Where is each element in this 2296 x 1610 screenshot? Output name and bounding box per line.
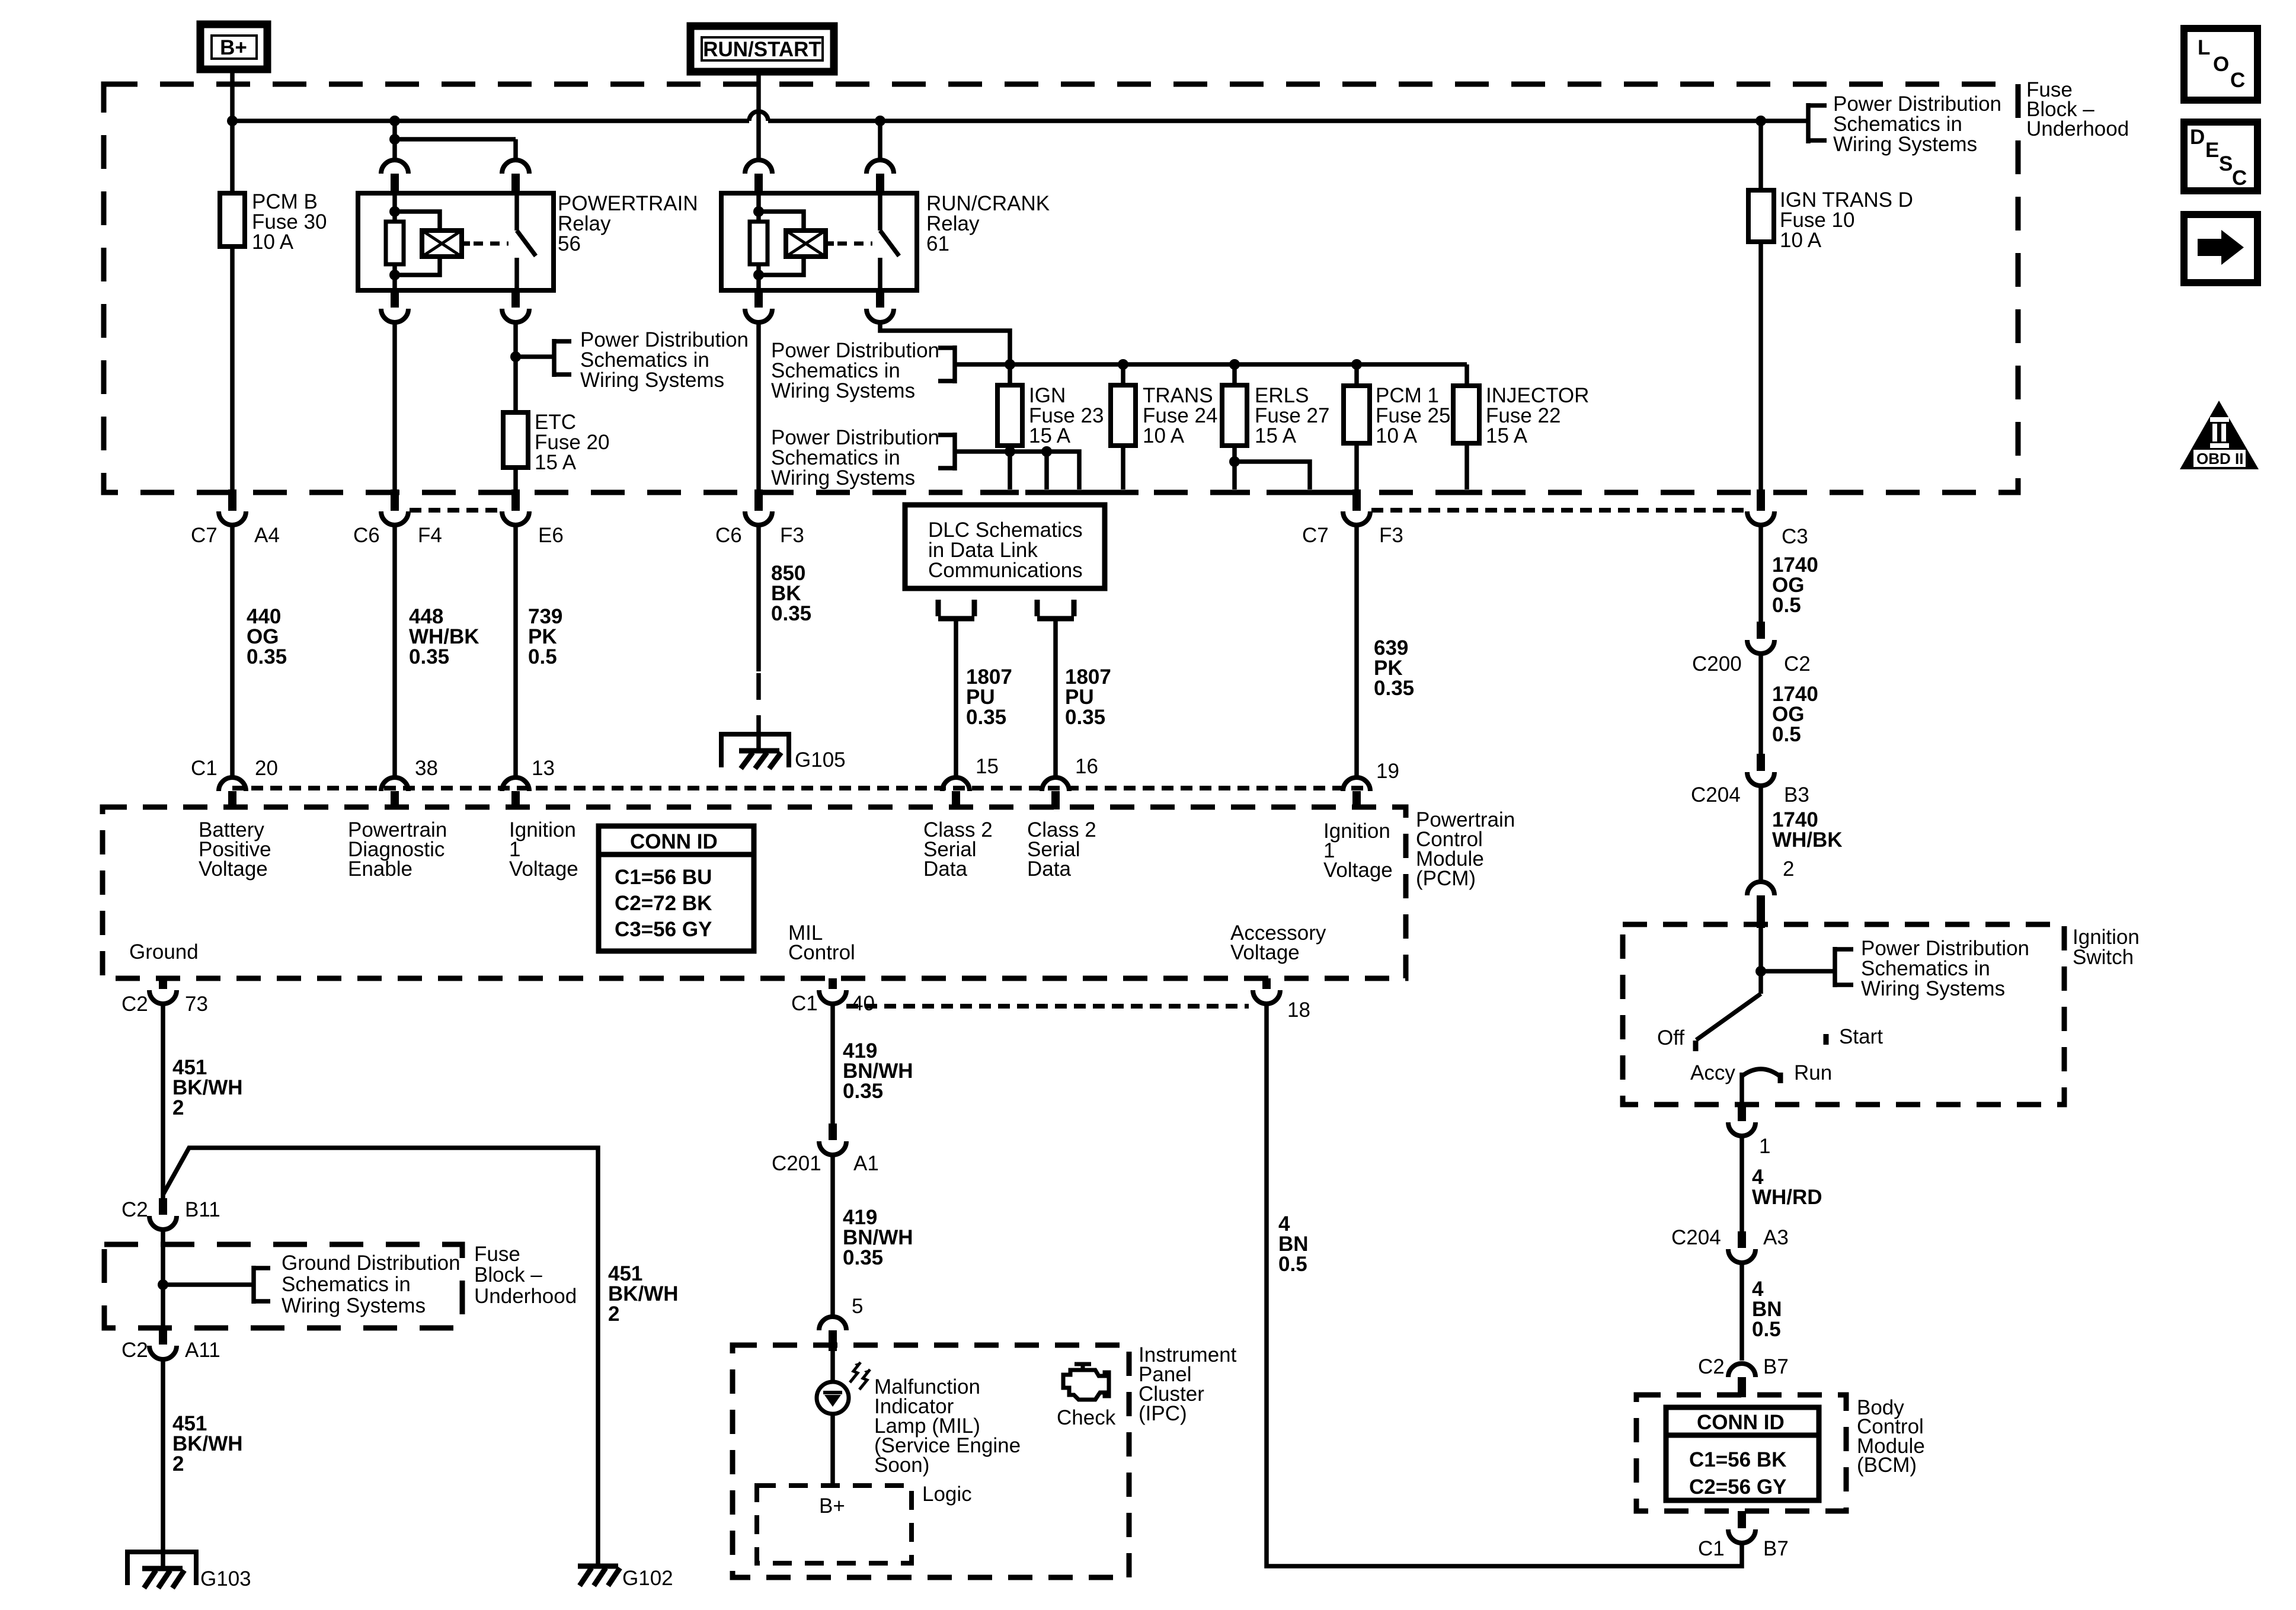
svg-text:0.5: 0.5 xyxy=(1278,1253,1307,1276)
wire into MIL lamp xyxy=(830,1351,835,1382)
wire trans fuse output xyxy=(1121,446,1125,489)
svg-text:B11: B11 xyxy=(185,1198,220,1221)
svg-text:10 A: 10 A xyxy=(1780,229,1822,252)
svg-text:C2=56 GY: C2=56 GY xyxy=(1689,1475,1786,1499)
fuse block underhood dashed box xyxy=(104,84,2018,492)
svg-text:(BCM): (BCM) xyxy=(1857,1454,1917,1477)
label wire 4 BN 0.5 (pin 18) xyxy=(1278,1212,1309,1276)
node run/crank switch branch xyxy=(875,116,885,126)
svg-text:(IPC): (IPC) xyxy=(1139,1402,1187,1425)
svg-text:CONN ID: CONN ID xyxy=(1697,1411,1785,1434)
svg-text:C1: C1 xyxy=(191,757,218,780)
PCM module dashed box xyxy=(103,807,1406,978)
svg-text:1: 1 xyxy=(1759,1135,1770,1158)
svg-text:0.5: 0.5 xyxy=(528,645,557,668)
label wire 1807 PU 0.35 (right) xyxy=(1065,665,1111,729)
wire A11 to G103 xyxy=(161,1359,165,1569)
label wire 451 BK/WH 2 (right branch) xyxy=(608,1262,679,1326)
node ignition feed tap xyxy=(1755,966,1766,977)
wire DLC to pin 15 xyxy=(954,619,958,777)
wire C3 to C200 xyxy=(1758,525,1763,622)
svg-text:20: 20 xyxy=(255,757,278,780)
svg-text:Communications: Communications xyxy=(928,559,1083,582)
label wire 448 WH/BK 0.35 xyxy=(409,605,479,668)
svg-text:C3=56 GY: C3=56 GY xyxy=(615,918,712,941)
svg-text:19: 19 xyxy=(1376,760,1399,783)
svg-text:B3: B3 xyxy=(1784,783,1809,806)
wire run/crank switch feed down xyxy=(878,121,882,160)
wire dotted connector face C6 xyxy=(410,508,501,513)
wire powertrain switch output xyxy=(513,322,518,412)
svg-text:C2: C2 xyxy=(121,993,148,1016)
svg-text:Wiring Systems: Wiring Systems xyxy=(1861,977,2005,1000)
svg-text:C7: C7 xyxy=(191,524,218,547)
svg-text:5: 5 xyxy=(852,1295,863,1318)
svg-text:Check: Check xyxy=(1057,1406,1116,1429)
svg-text:B7: B7 xyxy=(1763,1355,1789,1378)
pointer bracket Power Distribution (ign fuse bottom) xyxy=(771,426,1010,489)
node dlc branch xyxy=(1041,446,1052,457)
svg-text:38: 38 xyxy=(415,757,438,780)
connector into run/crank relay switch xyxy=(866,160,894,193)
svg-text:Off: Off xyxy=(1657,1026,1684,1049)
wire erls fuse output xyxy=(1235,446,1310,489)
connector C2 B11 xyxy=(121,1198,220,1230)
svg-text:Ground Distribution: Ground Distribution xyxy=(282,1251,461,1275)
node pcm1 fuse xyxy=(1351,359,1362,370)
svg-text:Data: Data xyxy=(1027,857,1071,881)
svg-text:0.35: 0.35 xyxy=(966,706,1006,729)
svg-text:Fuse: Fuse xyxy=(474,1243,520,1266)
svg-text:C2: C2 xyxy=(121,1339,148,1362)
connector C2 B7 into BCM xyxy=(1698,1355,1789,1397)
connector into run/crank relay coil xyxy=(745,160,772,193)
svg-text:C: C xyxy=(2230,69,2245,92)
svg-text:0.35: 0.35 xyxy=(409,645,449,668)
svg-text:C2=72 BK: C2=72 BK xyxy=(615,892,712,915)
wire B+ down from box xyxy=(230,69,235,193)
node mini bus xyxy=(389,134,400,145)
connector into powertrain relay coil xyxy=(381,160,408,193)
wire lamp to logic box xyxy=(830,1414,835,1486)
svg-text:A4: A4 xyxy=(254,524,280,547)
svg-text:E: E xyxy=(2205,139,2219,162)
pin 5 connector into IPC xyxy=(819,1295,863,1351)
svg-text:73: 73 xyxy=(185,993,208,1016)
svg-text:Switch: Switch xyxy=(2073,946,2134,969)
svg-text:A1: A1 xyxy=(853,1152,879,1175)
svg-text:0.35: 0.35 xyxy=(843,1246,883,1269)
svg-text:C1=56 BU: C1=56 BU xyxy=(615,866,712,889)
wire powertrain coil output to border xyxy=(392,322,397,491)
wire run/crank coil output to border xyxy=(756,322,761,491)
wire ground to B11 xyxy=(161,1004,165,1198)
wire bus corner to injector fuse xyxy=(1464,364,1469,386)
svg-text:C1: C1 xyxy=(1698,1537,1725,1560)
svg-text:Voltage: Voltage xyxy=(199,857,268,881)
wire pin 18 accessory voltage down xyxy=(1267,1004,1742,1566)
svg-text:S: S xyxy=(2219,152,2233,175)
svg-text:Data: Data xyxy=(923,857,967,881)
connector C1 B7 below BCM xyxy=(1698,1511,1789,1560)
wire ignition fuse bus xyxy=(1010,362,1467,367)
wire hop over RUN/START wire xyxy=(749,111,768,121)
relay RUN/CRANK 61 xyxy=(721,192,1050,290)
fuse PCM 1 Fuse 25 xyxy=(1344,364,1450,447)
label wire 451 BK/WH 2 (lower left) xyxy=(172,1412,243,1475)
connector below powertrain relay coil xyxy=(381,290,408,322)
svg-text:C204: C204 xyxy=(1691,783,1741,806)
svg-text:15 A: 15 A xyxy=(1255,424,1297,447)
wire MIL to C201 xyxy=(830,1004,835,1124)
connector C200 C2 xyxy=(1692,622,1811,676)
svg-text:C: C xyxy=(2232,167,2247,190)
label Fuse Block - Underhood (top right) xyxy=(2026,78,2129,140)
label wire 440 OG 0.35 xyxy=(247,605,287,668)
wire run/start down xyxy=(756,72,761,160)
svg-text:Wiring Systems: Wiring Systems xyxy=(282,1294,426,1317)
svg-text:Wiring Systems: Wiring Systems xyxy=(580,369,724,392)
svg-text:Voltage: Voltage xyxy=(1323,859,1393,882)
svg-text:Soon): Soon) xyxy=(874,1454,929,1477)
svg-text:Enable: Enable xyxy=(348,857,412,881)
svg-text:(PCM): (PCM) xyxy=(1416,867,1476,890)
wire pin1 to C204 A3 xyxy=(1739,1136,1744,1231)
label Ignition 1 Voltage (pin 19) xyxy=(1323,820,1393,882)
svg-text:Underhood: Underhood xyxy=(474,1285,577,1308)
node ign output xyxy=(1005,446,1015,457)
table CONN ID (BCM) xyxy=(1666,1407,1819,1500)
svg-text:B+: B+ xyxy=(819,1494,845,1518)
fuse ETC Fuse 20 xyxy=(503,411,609,474)
svg-text:Wiring Systems: Wiring Systems xyxy=(771,466,915,489)
svg-text:10 A: 10 A xyxy=(252,231,294,254)
pointer bracket Ground Distribution xyxy=(254,1251,461,1317)
switch blade run position xyxy=(1696,994,1761,1040)
svg-text:F3: F3 xyxy=(780,524,804,547)
pin 15 connector xyxy=(942,755,999,809)
svg-text:Run: Run xyxy=(1794,1061,1832,1084)
pin 13 connector xyxy=(502,757,555,809)
logic dashed box xyxy=(757,1486,912,1563)
node trans fuse xyxy=(1118,359,1128,370)
fuse IGN Fuse 23 xyxy=(997,364,1104,447)
lamp MIL indicator xyxy=(817,1362,870,1414)
fuse PCM B Fuse 30 xyxy=(220,190,327,254)
nav box arrow xyxy=(2184,215,2257,283)
svg-text:15 A: 15 A xyxy=(1486,424,1528,447)
label wire 1740 OG 0.5 (lower) xyxy=(1772,683,1818,746)
svg-text:C1: C1 xyxy=(791,992,818,1015)
wire top bus from hop to right side xyxy=(768,119,1806,123)
svg-text:10 A: 10 A xyxy=(1143,424,1185,447)
node ground distribution tap xyxy=(158,1279,168,1290)
pin 18 connector xyxy=(1253,978,1310,1022)
svg-text:Ground: Ground xyxy=(129,940,199,964)
svg-text:O: O xyxy=(2213,53,2229,76)
node powertrain relay coil branch xyxy=(389,116,400,126)
svg-text:C2: C2 xyxy=(1698,1355,1725,1378)
svg-text:B7: B7 xyxy=(1763,1537,1789,1560)
wire F4 to pin 38 xyxy=(392,525,397,777)
label Class 2 Serial Data (pin 15) xyxy=(923,818,993,881)
svg-text:A11: A11 xyxy=(185,1339,220,1362)
DLC Schematics box xyxy=(905,505,1105,588)
svg-text:2: 2 xyxy=(172,1096,184,1119)
BCM module dashed box xyxy=(1636,1395,1846,1511)
B+ power rail box xyxy=(200,24,267,69)
connector into powertrain relay switch xyxy=(502,160,529,193)
svg-text:CONN ID: CONN ID xyxy=(630,830,718,853)
svg-text:Logic: Logic xyxy=(922,1483,972,1506)
label Ignition Switch xyxy=(2073,926,2140,969)
svg-text:C200: C200 xyxy=(1692,652,1742,676)
label wire 850 BK 0.35 xyxy=(771,562,811,625)
fuse ERLS Fuse 27 xyxy=(1222,364,1329,447)
svg-text:Control: Control xyxy=(788,941,855,964)
svg-text:2: 2 xyxy=(1783,857,1794,881)
wire dotted connector face C7 to C3 xyxy=(1371,508,1746,513)
wire DLC to pin 16 xyxy=(1053,619,1058,777)
wire tap to bracket xyxy=(516,354,554,359)
pin bracket DLC right xyxy=(1037,600,1074,619)
svg-text:Wiring Systems: Wiring Systems xyxy=(771,379,915,402)
contact Start xyxy=(1824,1034,1829,1045)
svg-text:B+: B+ xyxy=(220,36,247,59)
svg-text:61: 61 xyxy=(926,232,949,255)
label Fuse Block - Underhood (lower) xyxy=(474,1243,577,1308)
svg-text:Start: Start xyxy=(1839,1025,1883,1048)
svg-text:C2: C2 xyxy=(121,1198,148,1221)
IPC module dashed box xyxy=(733,1345,1129,1577)
icon OBD II triangle xyxy=(2180,401,2259,469)
wire into ignition switch xyxy=(1758,928,1763,994)
PCM connector face dotted line xyxy=(232,786,1371,790)
fuse block underhood dashed box (lower) xyxy=(104,1244,462,1328)
svg-text:D: D xyxy=(2190,126,2205,149)
label wire 4 WH/RD xyxy=(1752,1166,1822,1209)
connector C204 B3 xyxy=(1691,754,1809,806)
ground G103 xyxy=(127,1552,251,1590)
pointer bracket Power Distribution (top right) xyxy=(1808,92,2001,156)
fuse IGN TRANS D Fuse 10 xyxy=(1748,121,1913,252)
pin bracket DLC left xyxy=(938,600,974,619)
wire tap to bracket xyxy=(163,1282,254,1287)
label Body Control Module (BCM) xyxy=(1857,1396,1925,1477)
svg-text:0.35: 0.35 xyxy=(247,645,287,668)
svg-text:15 A: 15 A xyxy=(1029,424,1071,447)
svg-text:0.5: 0.5 xyxy=(1752,1318,1781,1341)
node ign fuse xyxy=(1005,359,1015,370)
ground G105 xyxy=(721,734,846,772)
label wire 419 BN/WH 0.35 (upper) xyxy=(843,1039,913,1103)
table CONN ID (PCM) xyxy=(599,826,754,951)
label wire 4 BN 0.5 (right) xyxy=(1752,1278,1782,1341)
icon check engine xyxy=(1057,1364,1116,1429)
wire C200 to C204 xyxy=(1758,654,1763,754)
svg-text:WH/RD: WH/RD xyxy=(1752,1186,1822,1209)
contact Accy to Run arc xyxy=(1742,1069,1780,1076)
wire C204 A3 to C2 B7 xyxy=(1739,1263,1744,1361)
connector C7 F3 at fuse block exit (PCM 1 fuse) xyxy=(1302,489,1403,547)
svg-text:0.35: 0.35 xyxy=(1374,677,1414,700)
svg-text:56: 56 xyxy=(558,232,581,255)
ignition switch dashed box xyxy=(1623,924,2064,1105)
wire mini bus coil to switch xyxy=(395,139,516,160)
RUN/START power rail box xyxy=(690,26,834,72)
svg-text:Wiring Systems: Wiring Systems xyxy=(1833,133,1977,156)
wire run/crank switch output to fuse bus xyxy=(880,322,1010,364)
fuse TRANS Fuse 24 xyxy=(1111,364,1217,447)
connector pin 2 ignition switch xyxy=(1747,857,1794,928)
label Powertrain Control Module (PCM) xyxy=(1416,808,1515,890)
wire C201 to IPC xyxy=(830,1155,835,1317)
svg-text:0.5: 0.5 xyxy=(1772,594,1801,617)
wire branch diagonal to G102 run xyxy=(163,1148,598,1566)
wire ETC fuse to border xyxy=(513,468,518,491)
wire PCM B fuse to border xyxy=(230,247,235,491)
wire ign trans d output xyxy=(1758,242,1763,491)
node ign trans d branch xyxy=(1755,116,1766,126)
wire dotted connector face C1 bottom xyxy=(846,1004,1249,1009)
connector below run/crank relay coil xyxy=(745,290,772,322)
pointer bracket Power Distribution (ignition switch) xyxy=(1835,937,2029,1000)
label Accessory Voltage xyxy=(1230,921,1326,964)
nav box DESC xyxy=(2184,122,2257,191)
pin C2 73 ground connector xyxy=(121,978,208,1016)
connector below powertrain relay switch xyxy=(502,290,529,322)
label Battery Positive Voltage xyxy=(199,818,271,881)
wire pcm1 to pin 19 xyxy=(1354,525,1359,777)
svg-text:18: 18 xyxy=(1287,998,1310,1022)
svg-text:40: 40 xyxy=(852,992,875,1015)
svg-text:Accy: Accy xyxy=(1690,1061,1735,1084)
label wire 739 PK 0.5 xyxy=(528,605,562,668)
label Class 2 Serial Data (pin 16) xyxy=(1027,818,1096,881)
svg-text:OBD II: OBD II xyxy=(2196,450,2243,468)
svg-text:0.35: 0.35 xyxy=(771,602,811,625)
connector C6 F3 at fuse block exit xyxy=(715,489,804,547)
svg-text:C1=56 BK: C1=56 BK xyxy=(1689,1448,1786,1471)
label MIL Control xyxy=(788,921,855,964)
pin 19 connector xyxy=(1343,760,1399,809)
svg-text:2: 2 xyxy=(608,1302,619,1326)
svg-text:G102: G102 xyxy=(622,1567,673,1590)
wire tap to bracket xyxy=(1761,969,1835,974)
svg-text:0.35: 0.35 xyxy=(843,1080,883,1103)
ground G102 xyxy=(578,1566,673,1590)
node ETC branch label tap xyxy=(510,351,521,362)
label Instrument Panel Cluster (IPC) xyxy=(1139,1343,1237,1425)
svg-text:16: 16 xyxy=(1075,755,1098,778)
svg-text:L: L xyxy=(2198,36,2210,59)
contact Off xyxy=(1693,1041,1699,1051)
relay POWERTRAIN 56 xyxy=(358,192,698,290)
svg-text:C7: C7 xyxy=(1302,524,1329,547)
svg-text:Voltage: Voltage xyxy=(1230,941,1300,964)
svg-text:C3: C3 xyxy=(1782,525,1808,548)
svg-text:C6: C6 xyxy=(353,524,380,547)
pointer bracket Power Distribution (ETC) xyxy=(554,328,749,392)
svg-text:A3: A3 xyxy=(1763,1226,1789,1249)
node B+ bus junction xyxy=(227,116,238,126)
label wire 1740 WH/BK xyxy=(1772,808,1843,852)
svg-text:Voltage: Voltage xyxy=(509,857,578,881)
svg-text:0.5: 0.5 xyxy=(1772,723,1801,746)
svg-text:WH/BK: WH/BK xyxy=(1772,828,1843,852)
wire accy output xyxy=(1739,1073,1744,1105)
wire B11 into fuse block 2 xyxy=(161,1230,165,1285)
connector C2 A11 xyxy=(121,1328,220,1362)
svg-text:C2: C2 xyxy=(1784,652,1811,676)
svg-text:C201: C201 xyxy=(772,1152,821,1175)
svg-text:G103: G103 xyxy=(200,1567,251,1590)
label wire 1740 OG 0.5 (upper) xyxy=(1772,553,1818,617)
svg-text:2: 2 xyxy=(172,1452,184,1475)
fuse INJECTOR Fuse 22 xyxy=(1453,384,1589,447)
svg-text:15: 15 xyxy=(976,755,999,778)
label wire 419 BN/WH 0.35 (lower) xyxy=(843,1206,913,1269)
connector below run/crank relay switch xyxy=(866,290,894,322)
wire ign fuse output bus xyxy=(1010,446,1079,489)
connector C6 F4 at fuse block exit xyxy=(353,489,442,547)
wire T ends at border xyxy=(980,490,1482,495)
wire inside box down xyxy=(161,1285,165,1328)
svg-text:C204: C204 xyxy=(1671,1226,1721,1249)
svg-text:Underhood: Underhood xyxy=(2026,117,2129,140)
wire C204 to ignition switch xyxy=(1758,786,1763,883)
svg-text:13: 13 xyxy=(532,757,555,780)
node erls fuse xyxy=(1229,359,1240,370)
svg-text:C6: C6 xyxy=(715,524,742,547)
pin 38 connector xyxy=(381,757,438,809)
connector C204 A3 xyxy=(1671,1226,1789,1263)
node erls output xyxy=(1229,456,1240,467)
svg-text:Schematics in: Schematics in xyxy=(282,1273,411,1296)
connector E6 at fuse block exit xyxy=(502,489,564,547)
svg-text:G105: G105 xyxy=(795,748,846,772)
wire A4 to pin 20 xyxy=(230,525,235,777)
svg-text:15 A: 15 A xyxy=(535,451,577,474)
wire F3 to ground G105 xyxy=(756,525,761,671)
connector C201 A1 xyxy=(772,1124,879,1175)
svg-text:0.35: 0.35 xyxy=(1065,706,1105,729)
connector C3 at fuse block exit xyxy=(1747,489,1808,548)
svg-text:F4: F4 xyxy=(418,524,442,547)
svg-text:E6: E6 xyxy=(538,524,564,547)
label wire 639 PK 0.35 xyxy=(1374,636,1414,700)
wire powertrain coil feed down xyxy=(392,121,397,160)
label wire 1807 PU 0.35 (left) xyxy=(966,665,1012,729)
label Malfunction Indicator Lamp xyxy=(874,1375,1021,1477)
svg-text:F3: F3 xyxy=(1379,524,1403,547)
connector C7 A4 at fuse block exit xyxy=(191,489,280,547)
wire injector fuse output xyxy=(1464,443,1469,489)
svg-text:10 A: 10 A xyxy=(1376,424,1418,447)
svg-text:Block –: Block – xyxy=(474,1263,542,1286)
pin 16 connector xyxy=(1042,755,1098,809)
label Powertrain Diagnostic Enable xyxy=(348,818,447,881)
pointer bracket Power Distribution (ign fuse top) xyxy=(771,339,1010,402)
wire pcm1 fuse output xyxy=(1354,443,1359,489)
wire E6 to pin 13 xyxy=(513,525,518,777)
pin 20 connector C1 xyxy=(191,757,278,809)
label wire 451 BK/WH 2 (upper left) xyxy=(172,1056,243,1119)
connector pin 1 below ignition switch xyxy=(1728,1105,1770,1158)
wire top bus from B+ to hop xyxy=(232,119,749,123)
nav box LOC xyxy=(2184,28,2257,100)
pin C1 40 MIL connector xyxy=(791,978,875,1015)
